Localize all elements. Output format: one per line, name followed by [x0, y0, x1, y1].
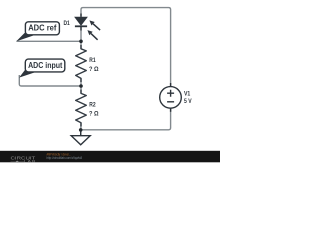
svg-text:—◆—L A B: —◆—L A B: [11, 159, 36, 163]
svg-text:? Ω: ? Ω: [89, 111, 99, 118]
svg-text:5 V: 5 V: [184, 98, 192, 105]
svg-text:http://circuitlab.com/c9qwfc8: http://circuitlab.com/c9qwfc8: [47, 156, 83, 160]
resistor R1: [76, 45, 87, 82]
voltage source V1: [160, 83, 182, 112]
wire bottom: V1 bottom to ground node: [81, 108, 171, 130]
D1 light arrow 2: [87, 30, 97, 40]
D1 light arrow 1: [89, 20, 100, 30]
svg-text:? Ω: ? Ω: [89, 66, 99, 73]
wire ADC ref flag to diode cathode node: [17, 40, 82, 42]
svg-text:V1: V1: [184, 91, 191, 98]
wire top: node from diode top to V1 top: [81, 8, 171, 87]
svg-text:R1: R1: [89, 57, 96, 64]
wire R1 bottom to R2 top: [80, 78, 82, 93]
wire ADC input flag to R1/R2 node: [19, 75, 81, 86]
wire R2 bottom to ground: [80, 123, 82, 136]
junction node ground/bottom wire: [79, 128, 83, 132]
svg-text:R2: R2: [89, 102, 96, 109]
svg-text:ADC input: ADC input: [28, 60, 62, 70]
svg-text:D1: D1: [64, 20, 71, 27]
flag label ADC ref: [16, 22, 59, 42]
flag label ADC input: [19, 59, 65, 78]
ground: [71, 132, 90, 145]
svg-text:ADC ref: ADC ref: [28, 23, 56, 33]
junction node ADC ref / cathode: [79, 40, 83, 44]
watermark footer bar: [0, 151, 220, 163]
junction node ADC input / R1-R2: [79, 84, 83, 88]
photodiode D1: [75, 14, 87, 31]
resistor R2: [76, 90, 87, 127]
wire vertical diode cathode to R1: [80, 27, 82, 50]
